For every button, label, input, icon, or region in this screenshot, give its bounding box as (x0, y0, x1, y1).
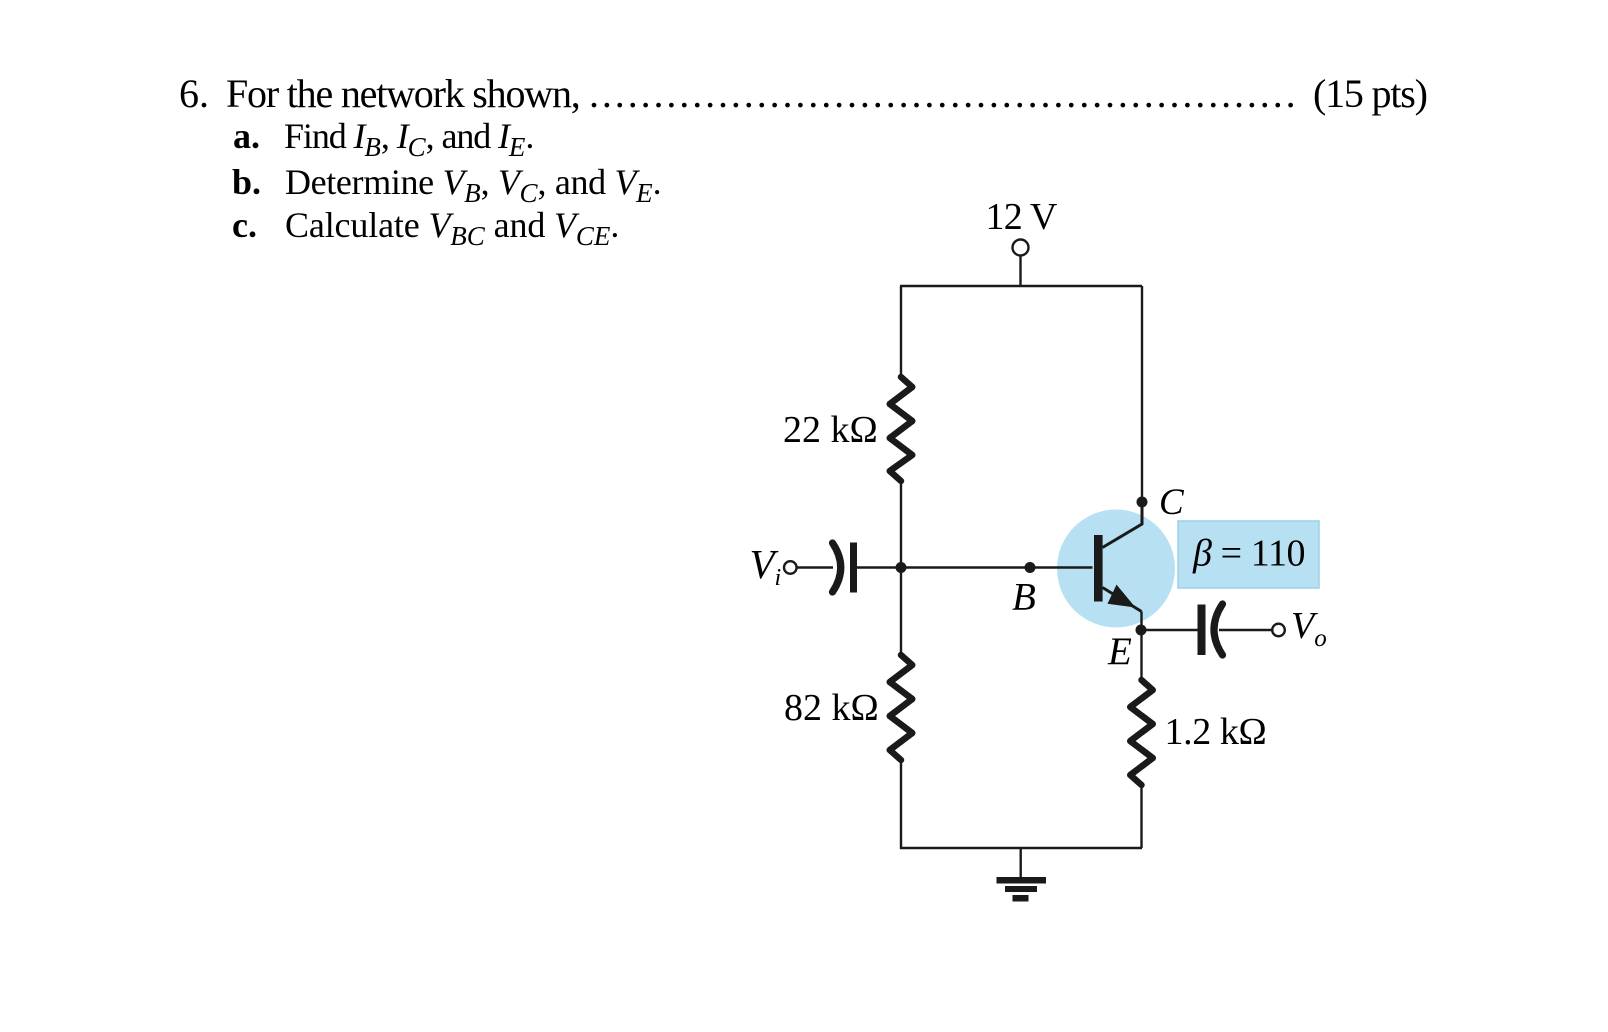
labels (750, 196, 1327, 753)
wire: terminal stem (1019, 256, 1021, 287)
svg-text:1.2 kΩ: 1.2 kΩ (1165, 711, 1267, 753)
svg-text:Vi: Vi (750, 541, 782, 591)
svg-text:12 V: 12 V (986, 196, 1058, 238)
problem statement line 1 (179, 93, 209, 95)
svg-text:22 kΩ: 22 kΩ (783, 409, 878, 451)
item a (233, 135, 260, 137)
wire: Vi to C1 (797, 566, 833, 568)
transistor Q1 (1103, 502, 1143, 548)
beta = 110 highlight box (1178, 521, 1319, 588)
wire: left rail lower (900, 760, 902, 849)
item b (232, 181, 261, 183)
node C (1137, 497, 1148, 508)
node B (1025, 562, 1036, 573)
wire: left rail upper (900, 286, 902, 377)
input terminal Vi (784, 561, 797, 574)
wire: E to C2 (1141, 629, 1198, 631)
svg-text:82 kΩ: 82 kΩ (784, 687, 879, 729)
resistor R2 82k (890, 655, 913, 760)
node junction left rail (896, 562, 907, 573)
wire: R3 to bottom rail (1140, 785, 1142, 848)
svg-text:E: E (1107, 630, 1132, 673)
svg-text:β = 110: β = 110 (1192, 533, 1305, 575)
resistor R1 22k (890, 377, 913, 481)
transistor highlight circle (1057, 510, 1175, 628)
wire: C2 to Vo (1219, 629, 1272, 631)
node E (1136, 625, 1147, 636)
wire: base wire (901, 566, 1093, 568)
svg-text:B: B (1012, 576, 1036, 619)
wire: left rail middle (900, 481, 902, 655)
svg-text:Vo: Vo (1291, 605, 1327, 652)
supply terminal 12V (1013, 240, 1029, 256)
capacitor C1 (833, 543, 841, 592)
item c (232, 224, 257, 226)
wire: right rail (1141, 286, 1143, 502)
ground (1020, 848, 1022, 877)
wire: top rail (900, 285, 1142, 287)
wire: E to R3 (1140, 630, 1142, 680)
svg-text:C: C (1159, 482, 1185, 523)
output terminal Vo (1272, 624, 1285, 637)
wire: bottom rail (900, 847, 1142, 849)
resistor R3 1.2k (1130, 680, 1153, 785)
wire: C1 to junction (857, 566, 901, 568)
capacitor C2 (1198, 605, 1206, 656)
